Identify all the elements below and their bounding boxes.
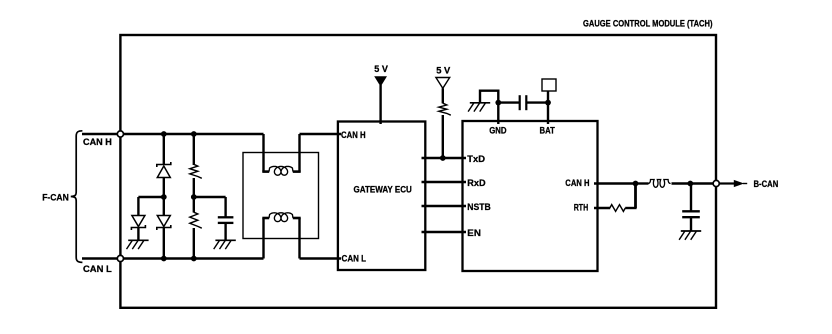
wire zener branch middle [163, 178, 165, 216]
wire C2 drop [690, 184, 692, 212]
wire arrow tail [743, 183, 747, 185]
capacitor C2 [682, 211, 700, 217]
junction BAT net junction [545, 100, 551, 106]
svg-text:RxD: RxD [467, 178, 485, 189]
wire RTH wire right seg [625, 207, 636, 209]
resistor R2 [190, 212, 202, 228]
svg-text:CAN H: CAN H [341, 130, 366, 141]
svg-text:NSTB: NSTB [467, 202, 491, 213]
wire choke bottom-right drop [298, 218, 300, 258]
outer box: gauge control module boundary [120, 35, 716, 308]
zener D3 (zener diode, cathode down) [131, 216, 145, 231]
junction CAN H / RTH junction [633, 181, 639, 187]
wire CAN L from F-CAN to choke [82, 257, 264, 259]
svg-text:BAT: BAT [540, 125, 555, 136]
inductor L2 ferrite [648, 180, 671, 188]
wire TxD line [422, 157, 467, 159]
wire RTH vertical [634, 184, 637, 209]
ground G2 under C1 [214, 240, 236, 249]
capacitor C1 [218, 217, 234, 223]
junction CAN H x R branch [191, 131, 197, 137]
svg-text:B-CAN: B-CAN [754, 179, 779, 190]
CAN transceiver U2 [463, 121, 598, 271]
junction CAN L x zener branch [161, 256, 167, 262]
wire CAN H to ferrite [636, 182, 649, 184]
wire D3 drop [137, 197, 139, 216]
wire RxD line [422, 181, 467, 183]
zener D1 (zener diode, cathode up) [157, 162, 171, 178]
zener D2 (zener diode, cathode down) [157, 216, 171, 231]
svg-text:GAUGE CONTROL MODULE (TACH): GAUGE CONTROL MODULE (TACH) [583, 18, 713, 29]
junction GND net junction [495, 100, 501, 106]
wire R branch upper [193, 134, 195, 165]
wire C1 drop [224, 197, 226, 218]
junction TxD pull-up junction [440, 155, 446, 161]
wire CAN H choke to ECU [300, 133, 342, 135]
common mode choke box [243, 153, 319, 239]
svg-text:CAN L: CAN L [342, 254, 367, 265]
ground G3 transceiver GND [468, 103, 490, 112]
resistor R3 pull-up [439, 103, 451, 115]
wire choke top-right rise [298, 134, 300, 172]
wire choke top-left foot [262, 170, 269, 173]
wire RTH wire left seg [594, 207, 610, 209]
wire CAN L choke to ECU [300, 257, 342, 259]
wire C2 to ground [690, 217, 692, 231]
wire R branch lower [193, 228, 195, 259]
wire choke bottom-left drop [262, 218, 264, 258]
power 5V supply (pull-up) [436, 78, 450, 89]
wire mid-node link to D3 [138, 196, 163, 198]
wire B-CAN wire to border [690, 182, 713, 184]
node CAN H terminal (open terminal) [117, 131, 123, 137]
gateway ECU U1 [338, 122, 425, 271]
wire ferrite to C2 node [672, 182, 691, 184]
ground G4 under C2 [679, 231, 701, 240]
junction ferrite / C2 junction [687, 181, 693, 187]
wire choke top-left drop [262, 134, 264, 172]
junction R mid node [191, 194, 197, 200]
wire CAN H from F-CAN to choke [82, 133, 264, 135]
wire GND to cap [498, 101, 519, 103]
wire choke bottom-right foot [293, 217, 301, 220]
svg-text:TxD: TxD [467, 154, 485, 165]
wire mid node to C1 [194, 196, 226, 198]
wire cap to BAT [527, 101, 548, 103]
svg-text:CAN H: CAN H [83, 137, 112, 148]
wire 5V pull-up stem lower [442, 115, 444, 158]
ground G1 under D3 [127, 240, 149, 249]
wire NSTB line [422, 205, 467, 207]
wire B-CAN wire outside [719, 182, 734, 184]
junction zener mid node [161, 194, 167, 200]
svg-text:GND: GND [489, 125, 506, 136]
wire GND stem and bend [480, 91, 498, 124]
wire 5V to ECU stem [379, 85, 381, 124]
svg-text:EN: EN [467, 228, 481, 239]
capacitor C3 (GND-BAT bypass) [520, 95, 527, 110]
power 5V supply (ECU) [374, 76, 387, 86]
inductor L1b bottom winding [269, 213, 293, 222]
wire zener branch lower [163, 228, 165, 259]
wire D3 to ground [137, 228, 139, 241]
svg-text:5 V: 5 V [436, 65, 451, 76]
wire CAN H out of transceiver [594, 182, 636, 184]
junction CAN L x R branch [191, 256, 197, 262]
wire 5V pull-up stem upper [442, 88, 444, 103]
wire R branch middle [193, 178, 195, 213]
node B-CAN terminal (open terminal) [713, 180, 719, 186]
resistor R1 [190, 164, 202, 178]
wire EN line [422, 231, 467, 233]
svg-text:5 V: 5 V [374, 64, 388, 75]
wire BAT stem [547, 91, 549, 124]
wire choke bottom-left foot [262, 217, 269, 220]
svg-text:CAN L: CAN L [83, 264, 112, 275]
wire choke top-right foot [293, 170, 301, 173]
connector terminal (BAT square) [542, 79, 556, 91]
svg-text:CAN H: CAN H [565, 178, 589, 189]
svg-text:GATEWAY ECU: GATEWAY ECU [354, 185, 412, 196]
node CAN L terminal (open terminal) [117, 255, 123, 261]
F-CAN bracket brace [71, 131, 83, 263]
wire C1 to ground [224, 223, 226, 240]
inductor L1a top winding [269, 166, 293, 175]
B-CAN arrowhead [734, 180, 744, 187]
svg-text:RTH: RTH [574, 203, 589, 214]
junction CAN H x zener branch [161, 131, 167, 137]
svg-text:F-CAN: F-CAN [42, 193, 69, 204]
resistor RTH resistor [610, 205, 626, 212]
wire zener branch upper [163, 134, 165, 165]
